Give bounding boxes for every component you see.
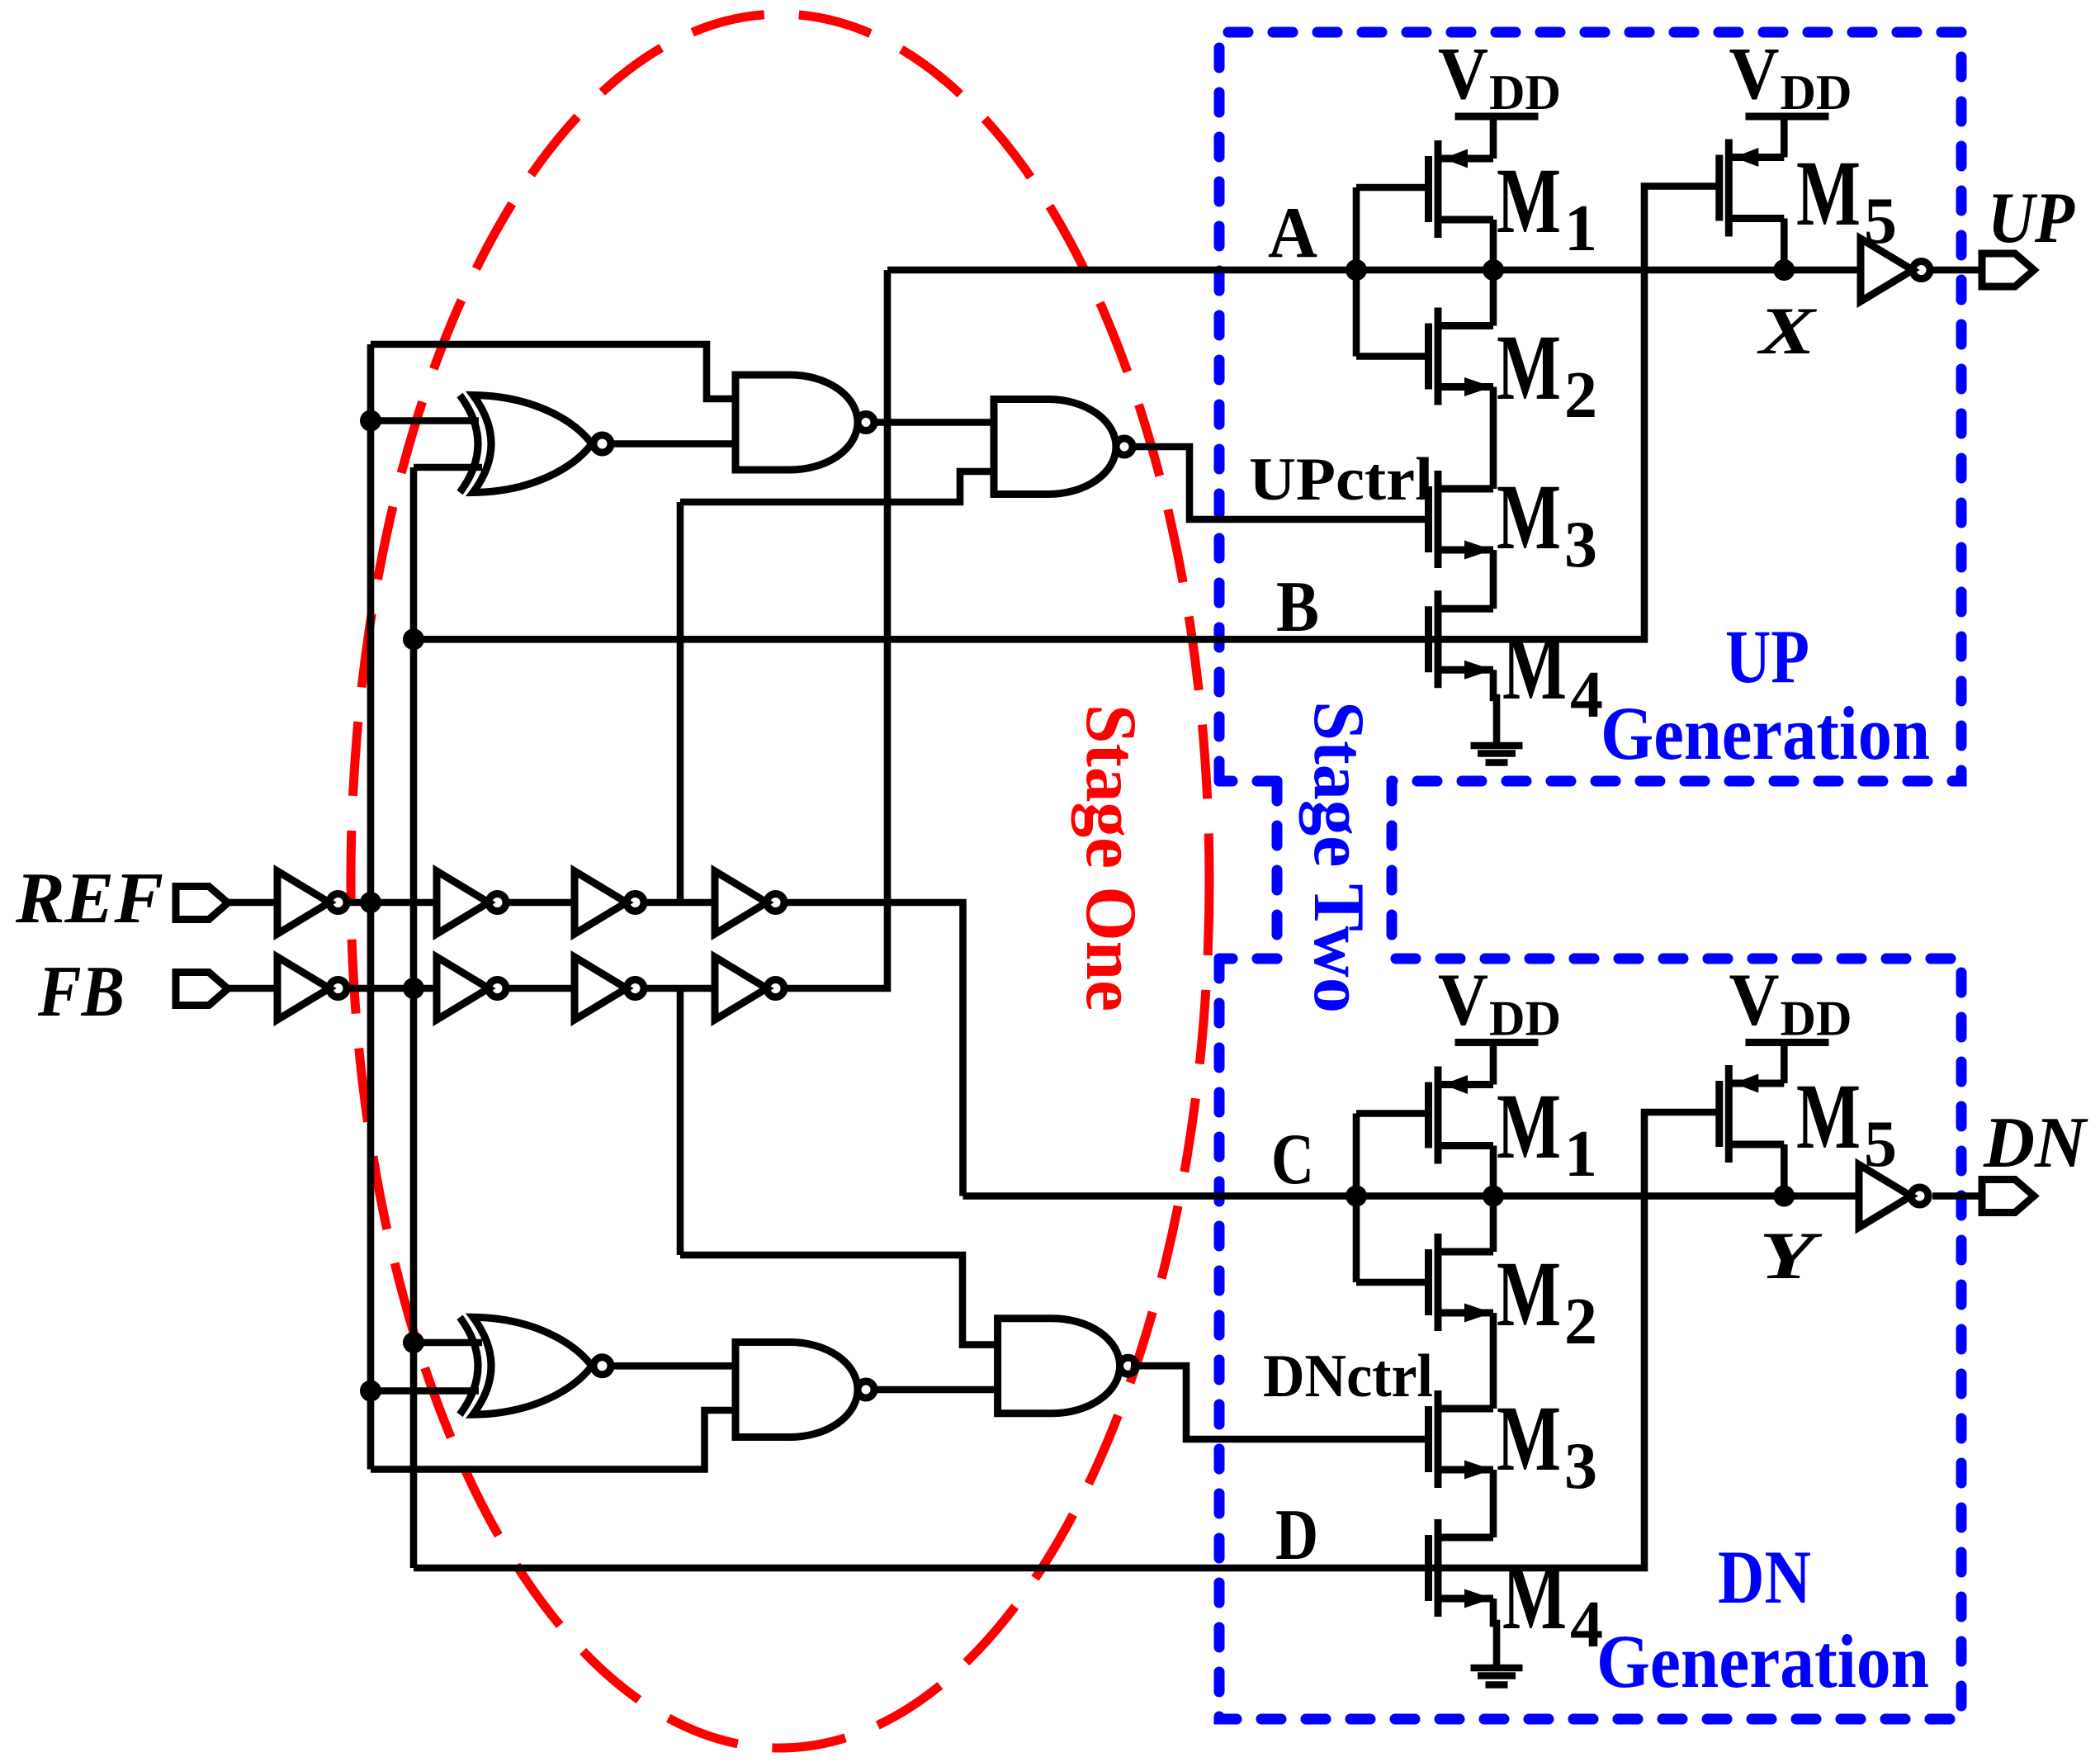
wire VDDdn to M1dn source (1490, 1043, 1497, 1085)
wire NAND3 input2 from REF node (371, 1410, 735, 1470)
buffer FB inv1 (277, 957, 347, 1020)
power VDD bar M1dn (1455, 1042, 1539, 1044)
svg-text:Y: Y (1759, 1218, 1823, 1293)
power VDD bar M1 (1455, 116, 1539, 117)
svg-text:DN: DN (1718, 1535, 1811, 1619)
node XNOR2 in1 (403, 1332, 424, 1353)
wire M3dn source to M4dn drain (1490, 1470, 1497, 1537)
svg-text:4: 4 (1570, 659, 1603, 732)
svg-text:Stage Two: Stage Two (1298, 701, 1379, 1013)
svg-text:M: M (1796, 1065, 1861, 1168)
xnor gate XNOR1 (460, 396, 611, 493)
power VDD bar M5 (1746, 116, 1829, 117)
output port DN (1982, 1180, 2034, 1213)
wire Y to DN inverter output (1932, 1192, 1984, 1200)
svg-text:2: 2 (1564, 359, 1597, 432)
svg-text:3: 3 (1564, 509, 1597, 581)
wire node A line to inverter (887, 267, 1861, 274)
nand gate NAND2 (994, 400, 1133, 495)
node dots (360, 259, 1795, 1402)
node XNOR2 in2 (360, 1381, 381, 1402)
wire M5 drain to X (1781, 219, 1788, 271)
transistor M1 (PMOS) (1429, 140, 1494, 238)
wire FB inv4 output to node A riser (784, 270, 887, 988)
wire B line FB node to M5 gate (414, 187, 1719, 640)
transistor M3 (NMOS) (1429, 471, 1494, 568)
node FB buffered (403, 978, 424, 999)
svg-text:5: 5 (1864, 185, 1897, 258)
svg-text:DD: DD (1781, 65, 1852, 120)
svg-text:V: V (1438, 33, 1488, 115)
svg-text:1: 1 (1564, 1118, 1597, 1191)
svg-text:M: M (1497, 316, 1561, 419)
box DN Generation (dashed blue) (1219, 959, 1961, 1719)
wire M1dn gate lead (1356, 1110, 1426, 1117)
svg-text:1: 1 (1564, 192, 1597, 265)
node C drain (1483, 1186, 1504, 1207)
wire REF port to inv1 (228, 899, 277, 907)
svg-text:M: M (1497, 1075, 1561, 1178)
wire C to M2dn drain (1490, 1196, 1497, 1253)
wire NAND1 output to NAND2 (877, 419, 994, 426)
svg-text:Generation: Generation (1601, 691, 1930, 775)
inverter FB inv2 (437, 957, 506, 1020)
wire M4 source to ground (1493, 670, 1497, 743)
transistor M4 (NMOS) (1429, 590, 1494, 688)
wire REF inv1 to inv2 (347, 899, 437, 907)
svg-text:DN: DN (1983, 1103, 2088, 1183)
wire VDDdn to M5dn source (1781, 1043, 1788, 1084)
svg-text:M: M (1796, 142, 1861, 245)
transistor M2dn (NMOS) (1429, 1234, 1494, 1331)
svg-text:REF: REF (15, 859, 163, 939)
svg-text:C: C (1271, 1120, 1314, 1200)
svg-text:DNctrl: DNctrl (1263, 1343, 1433, 1410)
svg-text:B: B (1276, 567, 1319, 647)
svg-text:3: 3 (1564, 1430, 1597, 1503)
svg-text:M: M (1497, 466, 1561, 569)
wire M1dn M2dn gate tie vertical (1353, 1114, 1360, 1283)
svg-text:UP: UP (1988, 178, 2075, 258)
node X (1773, 259, 1795, 281)
wire DNctrl from NAND4 output to M3 gate (1131, 1366, 1428, 1439)
transistor M4dn (NMOS) (1429, 1519, 1494, 1617)
output port UP (1982, 253, 2034, 287)
wire NAND1 input1 from REF node (371, 344, 735, 399)
node A drain (1483, 259, 1504, 281)
svg-text:M: M (1497, 149, 1561, 253)
wire VDD to M1 source (1490, 116, 1497, 159)
wire XNOR1 output to NAND1 (612, 440, 735, 448)
svg-text:2: 2 (1564, 1286, 1597, 1358)
ground below M4dn (1471, 1668, 1523, 1685)
svg-text:DD: DD (1489, 65, 1561, 120)
svg-text:V: V (1729, 959, 1780, 1041)
wires (black) (228, 116, 1984, 1665)
wire M1dn drain to C (1490, 1146, 1497, 1196)
wire M2 source to M3 drain (1490, 387, 1497, 490)
wire REF inv2 to inv3 (506, 899, 575, 907)
node REF buffered (360, 892, 381, 913)
ground below M4 (1471, 746, 1523, 763)
svg-text:D: D (1275, 1495, 1318, 1575)
wire M3 source to M4 drain (1490, 550, 1497, 609)
wire M1 drain to A (1490, 220, 1497, 270)
wire REF node vertical (367, 344, 375, 1470)
wire XNOR2 input2 stub (371, 1387, 479, 1395)
svg-text:Generation: Generation (1596, 1619, 1929, 1703)
wire M5dn drain to Y (1781, 1144, 1788, 1196)
input port REF (176, 887, 228, 920)
svg-text:M: M (1497, 1387, 1561, 1490)
wire XNOR2 output to NAND3 (612, 1362, 735, 1370)
svg-text:A: A (1268, 193, 1317, 273)
wire M1 M2 gate tie vertical (1353, 187, 1360, 357)
transistor M5dn (PMOS) (1719, 1065, 1785, 1163)
wire VDD to M5 source (1781, 116, 1788, 158)
svg-text:4: 4 (1570, 1589, 1603, 1661)
wire XNOR1 input2 stub (414, 464, 482, 471)
box UP Generation (dashed blue) (1219, 32, 1961, 781)
inverter REF inv3 (575, 871, 644, 934)
wire node C line to inverter (963, 1192, 1860, 1200)
wire X to UP inverter handled by A line (1930, 267, 1984, 274)
wire REF inv3 to inv4 (644, 899, 715, 907)
nand gate NAND3 (735, 1343, 874, 1438)
transistor M2 (NMOS) (1429, 308, 1494, 405)
wire NAND3 output to NAND4 (874, 1386, 998, 1394)
buffer REF inv1 (277, 871, 347, 934)
svg-text:M: M (1502, 616, 1567, 719)
svg-text:DD: DD (1781, 992, 1852, 1046)
transistor M3dn (NMOS) (1429, 1390, 1494, 1488)
wire FB inv1 to inv2 (347, 985, 437, 992)
box Stage Two channel (1219, 781, 1392, 959)
inverter DN output (1859, 1165, 1928, 1228)
svg-text:V: V (1729, 33, 1780, 115)
wire REF inv4 output to node C riser (784, 902, 963, 1196)
wire FB inv2 to inv3 (506, 985, 575, 992)
inverter REF inv4 (715, 871, 784, 934)
node A gate tie (1346, 259, 1367, 281)
transistor M5 (PMOS) (1719, 140, 1785, 237)
node B tap (403, 628, 424, 650)
wire M4dn source to ground (1493, 1599, 1497, 1665)
svg-text:V: V (1438, 959, 1488, 1041)
inverter REF inv2 (437, 871, 506, 934)
ellipse Stage One boundary (351, 14, 1209, 1748)
inverter FB inv4 (715, 957, 784, 1020)
nand gate NAND4 (998, 1319, 1137, 1414)
wire REF tap vertical lower (677, 988, 684, 1255)
node C gate tie (1346, 1186, 1367, 1207)
wire UPctrl from NAND2 output to M3 gate (1133, 447, 1428, 519)
wire XNOR1 input1 stub (371, 417, 479, 424)
wire FB inv3 to inv4 (644, 985, 715, 992)
wire REF tap vertical upper (677, 502, 684, 902)
wire FB port to inv1 (228, 985, 277, 992)
svg-text:X: X (1756, 293, 1818, 368)
wire FB node vertical (410, 467, 418, 1568)
wire NAND2 input2 from REF tap (680, 471, 994, 502)
svg-text:DD: DD (1489, 992, 1561, 1046)
node Y (1773, 1186, 1795, 1207)
svg-text:M: M (1502, 1546, 1567, 1649)
svg-text:FB: FB (37, 952, 125, 1032)
svg-text:Stage One: Stage One (1071, 704, 1151, 1011)
nand gate NAND1 (735, 375, 874, 470)
transistor M1dn (PMOS) (1429, 1067, 1494, 1164)
svg-text:5: 5 (1864, 1108, 1897, 1181)
xnor gate XNOR2 (460, 1317, 611, 1414)
wire M2dn source to M3dn drain (1490, 1313, 1497, 1409)
inverter UP output (1861, 239, 1930, 301)
wire A to M2 drain (1490, 270, 1497, 326)
power VDD bar M5dn (1746, 1042, 1829, 1044)
wire M2dn gate lead (1356, 1279, 1426, 1286)
inverter FB inv3 (575, 957, 644, 1020)
wire XNOR2 input1 stub (414, 1339, 482, 1347)
wire NAND4 input1 from REF tap (680, 1255, 998, 1345)
wire M1 gate lead (1356, 184, 1426, 192)
wire M2 gate lead (1356, 353, 1426, 360)
wire D line FB node to M5 gate (414, 1112, 1719, 1568)
input port FB (176, 973, 228, 1006)
svg-text:M: M (1497, 1243, 1561, 1346)
node XNOR1 in1 (360, 410, 381, 432)
svg-text:UPctrl: UPctrl (1249, 446, 1433, 514)
svg-text:UP: UP (1725, 614, 1809, 699)
